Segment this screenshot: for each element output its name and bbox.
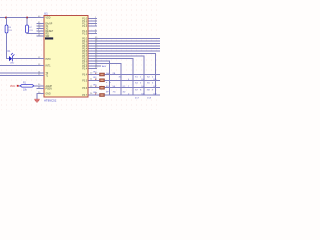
svg-text:P3.4: P3.4 xyxy=(82,75,87,77)
wire P0.5 bus xyxy=(89,50,161,52)
node junction J2 xyxy=(26,17,28,19)
svg-text:LED: LED xyxy=(10,63,15,65)
wire row 3 xyxy=(89,87,161,89)
wire T1 net xyxy=(0,75,44,77)
svg-text:ALE/P: ALE/P xyxy=(46,85,53,88)
wire P0.1 bus xyxy=(89,40,161,42)
svg-text:4D: 4D xyxy=(106,86,109,88)
svg-text:7G: 7G xyxy=(113,92,116,94)
wire P0.6 column xyxy=(89,54,156,96)
wire LED to P3.2 pin xyxy=(12,58,44,60)
power flag VCC xyxy=(10,85,19,88)
svg-text:INT0: INT0 xyxy=(46,59,52,61)
wire P0.7 column xyxy=(89,56,145,95)
svg-text:P1.3: P1.3 xyxy=(82,26,87,28)
wire row 2 xyxy=(89,79,161,81)
svg-text:P3.5: P3.5 xyxy=(82,81,87,83)
svg-text:P1.5: P1.5 xyxy=(82,34,87,36)
wire P2.3 net stub xyxy=(89,65,107,68)
LED D1 xyxy=(8,51,15,65)
IC U1 body xyxy=(44,16,88,98)
row 4: resistor R5 and wire xyxy=(94,92,105,97)
svg-text:INT1: INT1 xyxy=(46,66,52,68)
wire R1 to RST pin xyxy=(34,85,44,87)
svg-text:PSEN: PSEN xyxy=(46,89,53,91)
wire VCC rail top xyxy=(0,17,44,19)
svg-text:3D: 3D xyxy=(123,92,126,94)
wire row 4 xyxy=(89,94,161,96)
matrix net labels xyxy=(106,72,157,100)
svg-text:ALE: ALE xyxy=(102,65,107,68)
left inside labels xyxy=(45,18,54,96)
left pin stubs group: EA X1 X2 RESET RD WR xyxy=(37,18,45,94)
wire R7 to X1 pin xyxy=(27,32,44,35)
wire GND pin to ground xyxy=(37,94,44,100)
svg-text:U1: U1 xyxy=(44,12,48,16)
right short pin stubs xyxy=(89,19,98,69)
resistor R7 xyxy=(26,18,34,34)
wire INT1 net xyxy=(0,65,44,67)
row feed pin numbers xyxy=(90,73,93,96)
row 3: resistor R4 and wire xyxy=(94,85,105,90)
row 2: resistor R3 and wire xyxy=(94,77,105,82)
resistor R1 xyxy=(19,83,34,92)
right inside labels xyxy=(82,19,87,98)
svg-text:GND: GND xyxy=(46,94,51,96)
resistor R6 xyxy=(5,18,13,34)
wire P0.3 bus xyxy=(89,45,161,47)
wire T0 net xyxy=(0,72,44,74)
svg-text:P2.4: P2.4 xyxy=(82,69,87,71)
wire P2.1 column xyxy=(89,61,110,95)
wire P2.2 column xyxy=(89,64,122,96)
node junction J1 xyxy=(5,17,7,19)
wire P2.0 column xyxy=(89,59,133,96)
row 1: resistor R2 and wire xyxy=(94,71,105,76)
wire row 1 xyxy=(89,74,161,76)
wire P0.4 bus xyxy=(89,48,161,50)
svg-text:VDD: VDD xyxy=(46,18,51,20)
svg-text:3C: 3C xyxy=(119,76,122,78)
svg-text:P3.6: P3.6 xyxy=(82,88,87,90)
svg-text:2C: 2C xyxy=(123,86,126,88)
wire P0.2 bus xyxy=(89,43,161,45)
wire P0.0 bus xyxy=(89,38,161,40)
right pin numbers xyxy=(95,17,98,95)
wire R6 to LED xyxy=(7,33,10,59)
ground xyxy=(34,99,39,102)
svg-text:AT89C51: AT89C51 xyxy=(44,98,57,102)
svg-text:VCC: VCC xyxy=(10,85,15,88)
svg-text:P3.7: P3.7 xyxy=(82,95,87,97)
left pin numbers xyxy=(38,16,41,94)
